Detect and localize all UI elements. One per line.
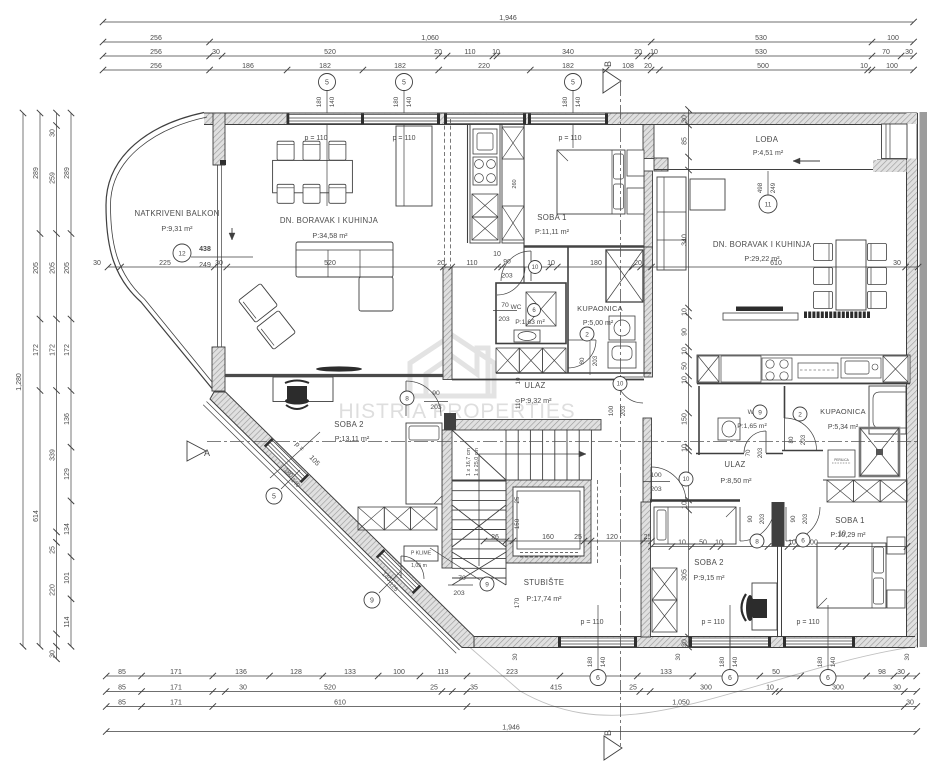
svg-text:6: 6 bbox=[596, 675, 600, 682]
door kupaonica-right bbox=[785, 418, 817, 450]
svg-text:182: 182 bbox=[562, 63, 574, 70]
kitchen tall cabinets left apt bbox=[502, 125, 524, 244]
svg-text:225: 225 bbox=[159, 260, 171, 267]
svg-text:11: 11 bbox=[765, 201, 772, 208]
svg-text:90: 90 bbox=[790, 515, 797, 522]
parapet p=110 window living 2 bbox=[392, 125, 415, 207]
top exterior wall bbox=[204, 113, 917, 125]
svg-text:9: 9 bbox=[370, 598, 374, 605]
svg-text:10: 10 bbox=[681, 376, 688, 384]
door bubble 6 soba1-right bbox=[790, 513, 810, 547]
soba1-right top line bbox=[823, 479, 907, 481]
door bubble 9 wc-right bbox=[745, 405, 767, 458]
kitchen island right apt bbox=[723, 307, 798, 321]
svg-text:171: 171 bbox=[170, 684, 182, 691]
svg-text:10: 10 bbox=[617, 382, 624, 388]
desk soba2-left bbox=[273, 377, 333, 402]
desk soba2-right bbox=[752, 583, 777, 630]
label soba2-right bbox=[693, 558, 725, 582]
svg-text:30: 30 bbox=[904, 653, 911, 660]
door kupaonica-left bbox=[568, 340, 596, 368]
door bubble 10 entry left apt bbox=[608, 377, 627, 417]
door bubble 10 entry right apt bbox=[643, 467, 693, 502]
svg-text:ULAZ: ULAZ bbox=[524, 381, 545, 390]
svg-text:p = 110: p = 110 bbox=[796, 619, 819, 626]
svg-text:203: 203 bbox=[757, 447, 764, 458]
svg-text:180: 180 bbox=[393, 96, 400, 107]
svg-text:LOĐA: LOĐA bbox=[756, 135, 779, 144]
svg-text:10: 10 bbox=[788, 539, 796, 546]
svg-text:110: 110 bbox=[466, 260, 477, 267]
grid bubble 5 window2 bbox=[393, 74, 413, 114]
svg-text:5: 5 bbox=[571, 80, 575, 87]
window bottom wall 2 bbox=[689, 637, 771, 647]
right apt kupaonica left wall bbox=[784, 386, 786, 418]
kitchen island left apt bbox=[396, 126, 432, 206]
svg-text:P:11,11 m²: P:11,11 m² bbox=[535, 227, 570, 236]
svg-text:10: 10 bbox=[681, 444, 688, 452]
right apt: kitchen/bath wall bbox=[697, 383, 910, 385]
svg-text:9: 9 bbox=[485, 581, 489, 588]
partition kitchen/living left apt bbox=[467, 125, 469, 244]
kupaonica-left sink bbox=[609, 316, 635, 340]
nightstands soba1-left bbox=[627, 150, 644, 176]
svg-text:50: 50 bbox=[772, 669, 780, 676]
svg-text:P:4,51 m²: P:4,51 m² bbox=[753, 150, 784, 157]
stairwell left wall bbox=[442, 430, 452, 568]
svg-text:203: 203 bbox=[802, 513, 809, 524]
parapet p=110 stubiste window bbox=[580, 605, 603, 670]
svg-text:249: 249 bbox=[199, 262, 211, 269]
balcony reference bubble 12 bbox=[173, 244, 253, 269]
beam over (dashed) living room bbox=[444, 119, 446, 266]
window bottom wall 1 bbox=[558, 637, 637, 647]
svg-text:415: 415 bbox=[550, 684, 562, 691]
right apt wc walls bbox=[698, 386, 700, 455]
svg-text:10: 10 bbox=[493, 251, 501, 258]
kupaonica-left shower bbox=[606, 250, 643, 302]
svg-text:98: 98 bbox=[878, 669, 886, 676]
svg-text:10: 10 bbox=[681, 308, 688, 316]
svg-text:133: 133 bbox=[344, 669, 356, 676]
svg-text:WC: WC bbox=[511, 304, 522, 311]
svg-text:1,946: 1,946 bbox=[502, 724, 520, 731]
office chair soba2-left bbox=[285, 381, 309, 410]
loggia floor line bbox=[654, 169, 877, 171]
label ulaz-right bbox=[720, 460, 752, 485]
svg-text:203: 203 bbox=[430, 404, 442, 411]
watermark logo house bbox=[410, 335, 494, 396]
section marker A bbox=[187, 441, 210, 461]
svg-text:160: 160 bbox=[542, 534, 554, 541]
parapet p=110 window living 1 bbox=[304, 125, 327, 207]
svg-text:25: 25 bbox=[514, 496, 521, 503]
bottom exterior wall bbox=[468, 637, 915, 648]
door soba2-right bbox=[740, 507, 774, 541]
dimension row top 3 bbox=[100, 49, 917, 59]
svg-text:220: 220 bbox=[478, 63, 490, 70]
svg-text:172: 172 bbox=[64, 344, 71, 356]
svg-text:P:13,11 m²: P:13,11 m² bbox=[335, 434, 370, 443]
svg-text:PERILICA: PERILICA bbox=[834, 458, 849, 462]
svg-text:172: 172 bbox=[49, 344, 56, 356]
dimension row bottom C bbox=[103, 699, 920, 709]
wall left apartment / loggia top jog bbox=[643, 125, 668, 172]
grid bubble 6 bottom window1 bbox=[587, 656, 607, 685]
svg-text:180: 180 bbox=[817, 656, 824, 667]
svg-text:180: 180 bbox=[719, 656, 726, 667]
svg-text:203: 203 bbox=[501, 273, 513, 280]
svg-text:25: 25 bbox=[49, 546, 56, 554]
balcony railing along diagonal bbox=[207, 402, 460, 651]
svg-text:180: 180 bbox=[587, 656, 594, 667]
svg-text:20: 20 bbox=[634, 260, 642, 267]
svg-text:25: 25 bbox=[574, 534, 582, 541]
svg-text:10: 10 bbox=[650, 49, 658, 56]
elevator dims bbox=[514, 496, 521, 608]
svg-text:100: 100 bbox=[887, 35, 899, 42]
label soba2-left bbox=[334, 420, 370, 443]
svg-text:171: 171 bbox=[170, 699, 182, 706]
svg-text:12: 12 bbox=[178, 250, 186, 257]
svg-text:20: 20 bbox=[644, 63, 652, 70]
svg-text:B: B bbox=[603, 61, 613, 67]
dimension column left 4 bbox=[64, 110, 74, 650]
dimension row interior right apt bbox=[648, 530, 910, 549]
svg-text:8: 8 bbox=[405, 395, 409, 402]
dimension row bottom A bbox=[103, 669, 920, 679]
dimension column left 2 bbox=[33, 110, 43, 650]
door entry left apt (soba2) bbox=[406, 381, 441, 416]
right apt soba walls top nook bbox=[650, 499, 740, 502]
glass wall pillar bottom bbox=[212, 347, 225, 391]
loggia arrow bbox=[793, 158, 820, 164]
kupaonica-left toilet bbox=[608, 342, 636, 368]
svg-text:10: 10 bbox=[860, 63, 868, 70]
svg-text:30: 30 bbox=[215, 260, 223, 267]
elevator shaft walls bbox=[506, 480, 591, 563]
label dn boravak i kuhinja right bbox=[713, 240, 812, 263]
bed soba1-right bbox=[817, 543, 886, 608]
door bubble 2 kupaonica-right bbox=[788, 407, 807, 445]
kupaonica left apt walls bbox=[567, 247, 569, 374]
tiled strip right apt bbox=[804, 312, 870, 319]
section line B-B bbox=[619, 82, 621, 748]
svg-text:205: 205 bbox=[64, 262, 71, 274]
svg-text:1,060: 1,060 bbox=[421, 35, 439, 42]
window top wall 3 bbox=[444, 114, 526, 124]
door wc-left bbox=[497, 267, 525, 295]
wall living/kitchen corridor (left apt) bbox=[443, 267, 452, 380]
label stubiste bbox=[524, 578, 565, 603]
svg-text:P:10,29 m²: P:10,29 m² bbox=[830, 530, 866, 539]
svg-text:30: 30 bbox=[675, 653, 682, 660]
label soba1-right bbox=[830, 516, 866, 539]
kupaonica-left inner wall short bbox=[523, 247, 525, 284]
svg-text:136: 136 bbox=[235, 669, 247, 676]
wardrobe soba2-right bbox=[652, 568, 677, 632]
svg-text:P:9,15 m²: P:9,15 m² bbox=[693, 573, 725, 582]
door entry right apt arc bbox=[650, 467, 652, 502]
wc left apt walls bbox=[496, 283, 566, 344]
svg-text:25: 25 bbox=[430, 684, 438, 691]
label wc-left bbox=[511, 304, 546, 326]
svg-text:530: 530 bbox=[755, 49, 767, 56]
svg-text:180: 180 bbox=[316, 96, 323, 107]
svg-text:p = 110: p = 110 bbox=[558, 135, 581, 142]
svg-text:203: 203 bbox=[759, 513, 766, 524]
stair direction arrow bbox=[479, 451, 586, 566]
svg-text:85: 85 bbox=[118, 684, 126, 691]
svg-text:p = 110: p = 110 bbox=[304, 135, 327, 142]
svg-text:110: 110 bbox=[515, 399, 522, 409]
separation wall left/right apartment bbox=[641, 171, 653, 637]
svg-text:50: 50 bbox=[681, 362, 688, 370]
svg-text:10: 10 bbox=[715, 539, 723, 546]
svg-text:P:9,31 m²: P:9,31 m² bbox=[161, 224, 193, 233]
svg-text:NATKRIVENI BALKON: NATKRIVENI BALKON bbox=[134, 209, 219, 218]
dimension row bottom B bbox=[103, 684, 920, 694]
armchair 1 left apt bbox=[238, 283, 277, 322]
svg-text:128: 128 bbox=[290, 669, 302, 676]
svg-text:10: 10 bbox=[678, 539, 686, 546]
svg-text:140: 140 bbox=[830, 656, 837, 667]
elevator cab bbox=[517, 491, 580, 549]
staircase corner landing diagonal bbox=[452, 430, 506, 480]
section line A-A bbox=[207, 441, 919, 443]
svg-text:133: 133 bbox=[660, 669, 672, 676]
svg-text:p = 110: p = 110 bbox=[701, 619, 724, 626]
klime box bbox=[404, 546, 438, 569]
diagonal exterior wall bbox=[210, 392, 474, 648]
svg-text:6: 6 bbox=[801, 537, 805, 544]
svg-text:6: 6 bbox=[728, 675, 732, 682]
grid bubble 5 window3 bbox=[562, 74, 582, 114]
parapet p=110 soba2-right window bbox=[701, 605, 730, 670]
dining table left apt bbox=[273, 160, 353, 192]
svg-text:100: 100 bbox=[650, 472, 662, 479]
svg-text:220: 220 bbox=[49, 584, 56, 596]
svg-text:100: 100 bbox=[608, 405, 615, 416]
balcony arc wall bbox=[106, 113, 220, 395]
dimension column left 1 bbox=[16, 110, 26, 650]
pier between soba doors bbox=[772, 502, 785, 547]
sofa right apt bbox=[657, 177, 725, 270]
label ulaz-left bbox=[520, 381, 552, 405]
svg-text:500: 500 bbox=[757, 63, 769, 70]
svg-text:108: 108 bbox=[622, 63, 634, 70]
section marker B top bbox=[603, 61, 621, 93]
svg-text:203: 203 bbox=[650, 486, 662, 493]
office chair soba2-right bbox=[742, 594, 768, 621]
door klime bbox=[401, 556, 424, 579]
svg-text:20: 20 bbox=[634, 49, 642, 56]
svg-text:25: 25 bbox=[644, 534, 652, 541]
nightstands soba1-right bbox=[887, 537, 905, 554]
window top wall 2 bbox=[361, 114, 440, 124]
window top wall 1 bbox=[287, 114, 362, 124]
svg-text:10: 10 bbox=[683, 477, 690, 483]
svg-text:26: 26 bbox=[491, 534, 499, 541]
partition soba2/soba1 right apt bbox=[777, 547, 779, 638]
label natkriveni balkon bbox=[134, 209, 219, 233]
svg-text:85: 85 bbox=[118, 699, 126, 706]
wc-right sink bbox=[718, 418, 740, 440]
stair text bbox=[466, 448, 480, 476]
svg-text:P:34,58 m²: P:34,58 m² bbox=[312, 231, 348, 240]
dimension column left 3 bbox=[49, 110, 59, 662]
kupaonica-right shower bbox=[860, 428, 899, 476]
svg-text:498: 498 bbox=[757, 182, 764, 193]
svg-text:256: 256 bbox=[150, 49, 162, 56]
svg-text:140: 140 bbox=[575, 96, 582, 107]
svg-text:203: 203 bbox=[592, 355, 599, 366]
door bubble 8 soba2-left bbox=[400, 390, 448, 411]
staircase winder cross bbox=[452, 505, 506, 585]
svg-text:203: 203 bbox=[498, 316, 510, 323]
svg-text:70: 70 bbox=[745, 449, 752, 456]
svg-text:KUPAONICA: KUPAONICA bbox=[820, 407, 866, 416]
grid bubble 6 bottom window2 bbox=[719, 656, 739, 685]
svg-text:260: 260 bbox=[512, 179, 518, 188]
bed soba2-right bbox=[654, 507, 736, 544]
wardrobe soba1-right bbox=[827, 480, 907, 502]
svg-text:A: A bbox=[204, 448, 210, 458]
wc-left shower bbox=[526, 292, 556, 326]
svg-text:9: 9 bbox=[758, 409, 762, 416]
svg-text:171: 171 bbox=[170, 669, 182, 676]
svg-text:5: 5 bbox=[402, 80, 406, 87]
svg-text:1,280: 1,280 bbox=[16, 373, 23, 391]
svg-text:20: 20 bbox=[437, 260, 445, 267]
svg-text:90: 90 bbox=[681, 328, 688, 336]
svg-text:1 x 16,7 cm: 1 x 16,7 cm bbox=[466, 448, 472, 476]
svg-text:520: 520 bbox=[324, 260, 336, 267]
wc-left sink bbox=[514, 330, 540, 342]
svg-text:186: 186 bbox=[242, 63, 254, 70]
glass wall pillar top (balcony/living) bbox=[213, 113, 225, 165]
door entry right apt bbox=[617, 377, 643, 403]
label soba1-left bbox=[535, 213, 570, 236]
corridor dims bbox=[512, 179, 522, 409]
svg-text:256: 256 bbox=[150, 63, 162, 70]
svg-text:30: 30 bbox=[681, 639, 688, 647]
svg-text:25: 25 bbox=[629, 684, 637, 691]
dimension column interior right col bbox=[681, 106, 691, 650]
loggia reference bubble 11 bbox=[757, 171, 777, 213]
svg-text:B: B bbox=[603, 730, 613, 736]
svg-text:114: 114 bbox=[64, 616, 71, 627]
dining table right apt bbox=[836, 240, 866, 310]
svg-text:140: 140 bbox=[600, 656, 607, 667]
bed soba2-left bbox=[406, 423, 442, 504]
svg-text:10: 10 bbox=[766, 684, 774, 691]
svg-text:ULAZ: ULAZ bbox=[724, 460, 745, 469]
window diagonal wall 2 bbox=[376, 549, 421, 594]
svg-text:P KLIME: P KLIME bbox=[411, 551, 432, 557]
tv wall living bbox=[316, 366, 362, 371]
label kupaonica-left bbox=[577, 304, 623, 327]
svg-text:30: 30 bbox=[905, 49, 913, 56]
dimension row top 4 bbox=[100, 63, 917, 73]
svg-text:1,05 m: 1,05 m bbox=[411, 563, 427, 569]
svg-text:KUPAONICA: KUPAONICA bbox=[577, 304, 623, 313]
staircase upper flight treads bbox=[452, 430, 591, 481]
svg-text:30: 30 bbox=[893, 684, 901, 691]
svg-text:70: 70 bbox=[458, 575, 466, 582]
svg-text:10: 10 bbox=[515, 377, 522, 384]
svg-text:100: 100 bbox=[886, 63, 898, 70]
svg-text:10: 10 bbox=[532, 265, 539, 271]
label kupaonica-right bbox=[820, 407, 866, 431]
svg-text:120: 120 bbox=[606, 534, 618, 541]
svg-text:P:8,50 m²: P:8,50 m² bbox=[720, 476, 752, 485]
window bottom wall 3 bbox=[783, 637, 855, 647]
washing machine right apt bbox=[828, 450, 855, 477]
window diagonal wall 1 bbox=[264, 438, 309, 483]
svg-text:203: 203 bbox=[620, 405, 627, 416]
svg-text:6: 6 bbox=[826, 675, 830, 682]
svg-text:249: 249 bbox=[770, 182, 777, 193]
svg-text:223: 223 bbox=[506, 669, 518, 676]
svg-text:30: 30 bbox=[681, 115, 688, 123]
svg-text:10: 10 bbox=[838, 530, 846, 537]
svg-text:182: 182 bbox=[319, 63, 331, 70]
svg-text:30: 30 bbox=[49, 650, 56, 658]
svg-text:289: 289 bbox=[33, 167, 40, 179]
grid bubble 6 bottom window3 bbox=[817, 656, 837, 685]
svg-text:90: 90 bbox=[432, 390, 440, 397]
svg-text:203: 203 bbox=[800, 434, 807, 445]
wardrobe soba2-left bbox=[358, 507, 437, 530]
stairwell top wall bbox=[444, 413, 601, 430]
door soba1-right bbox=[786, 507, 820, 541]
window loggia right wall bbox=[882, 124, 918, 159]
svg-text:30: 30 bbox=[512, 653, 519, 660]
svg-text:100: 100 bbox=[393, 669, 405, 676]
door soba1-left bbox=[501, 251, 531, 281]
svg-text:259: 259 bbox=[49, 172, 56, 184]
svg-text:30: 30 bbox=[93, 260, 101, 267]
section marker B bottom bbox=[603, 730, 622, 760]
svg-text:134: 134 bbox=[64, 523, 71, 535]
dimension row top 2 bbox=[100, 35, 917, 45]
svg-text:30: 30 bbox=[239, 684, 247, 691]
svg-text:340: 340 bbox=[681, 234, 688, 246]
svg-text:30: 30 bbox=[212, 49, 220, 56]
svg-text:SOBA 1: SOBA 1 bbox=[537, 213, 567, 222]
svg-text:20: 20 bbox=[434, 49, 442, 56]
partition soba2-left top bbox=[225, 374, 443, 377]
glass wall balcony/living bbox=[213, 165, 225, 347]
site boundary curve bbox=[466, 644, 912, 715]
svg-text:113: 113 bbox=[437, 669, 448, 676]
svg-text:P:5,34 m²: P:5,34 m² bbox=[828, 424, 859, 431]
svg-text:610: 610 bbox=[334, 699, 346, 706]
svg-text:10: 10 bbox=[492, 49, 500, 56]
svg-text:205: 205 bbox=[33, 262, 40, 274]
svg-text:110: 110 bbox=[464, 49, 475, 56]
partition soba1-left bottom bbox=[524, 245, 644, 247]
door wc-right bbox=[744, 431, 766, 453]
svg-text:85: 85 bbox=[681, 137, 688, 145]
dimension row interior y267 bbox=[93, 251, 921, 270]
svg-text:305: 305 bbox=[681, 569, 688, 581]
adjacent building grey strip (right edge) bbox=[920, 112, 927, 647]
svg-text:1,946: 1,946 bbox=[499, 15, 517, 22]
svg-text:170: 170 bbox=[514, 597, 521, 608]
svg-text:136: 136 bbox=[64, 413, 71, 425]
